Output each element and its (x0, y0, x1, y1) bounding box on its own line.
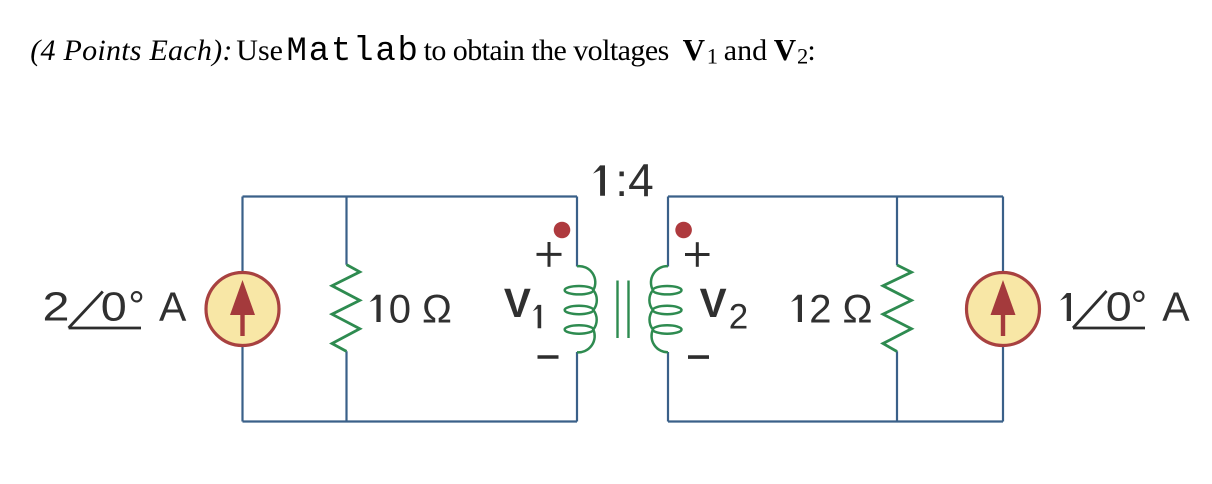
svg-text:1: 1 (707, 44, 718, 69)
svg-text:A: A (1162, 284, 1190, 330)
svg-text:2: 2 (43, 284, 70, 330)
svg-text:V: V (683, 32, 706, 67)
svg-text::: : (807, 34, 815, 67)
svg-text:Use: Use (236, 34, 283, 67)
svg-text:Matlab: Matlab (287, 33, 420, 71)
svg-text:and: and (724, 34, 767, 67)
svg-text:°: ° (1131, 282, 1147, 328)
svg-text:0: 0 (101, 284, 127, 330)
svg-text:V: V (774, 32, 797, 67)
svg-text::4: :4 (615, 154, 653, 206)
svg-text:V: V (700, 280, 727, 326)
svg-text:to obtain the voltages: to obtain the voltages (424, 34, 669, 67)
svg-text:0 Ω: 0 Ω (389, 287, 452, 331)
svg-text:A: A (159, 284, 187, 330)
svg-text:0: 0 (1106, 284, 1132, 330)
svg-text:2 Ω: 2 Ω (809, 287, 872, 331)
svg-text:°: ° (128, 283, 144, 329)
svg-text:2: 2 (729, 298, 748, 337)
svg-text:V: V (504, 280, 531, 326)
svg-text:(4 Points Each):: (4 Points Each): (30, 34, 232, 67)
